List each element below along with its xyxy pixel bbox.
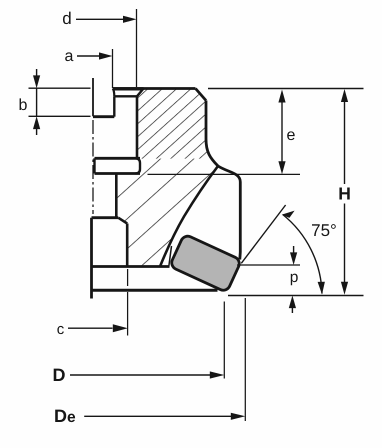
e extension line	[148, 173, 301, 175]
svg-text:a: a	[65, 48, 74, 65]
wire slot band right	[136, 158, 141, 173]
wire flange top	[93, 115, 114, 118]
wire slot right chamfer	[137, 89, 144, 97]
wire flange2 top	[92, 216, 119, 219]
wire seat bottom face	[92, 265, 170, 268]
svg-text:D: D	[53, 365, 66, 385]
dimension d	[76, 9, 137, 87]
hatched body section	[137, 89, 212, 159]
insert (carbide tip)	[169, 234, 241, 293]
svg-text:d: d	[62, 9, 71, 28]
wire neck curve	[206, 139, 240, 182]
wire slot left chamfer	[113, 89, 115, 97]
svg-text:p: p	[290, 269, 299, 286]
svg-text:De: De	[54, 406, 76, 426]
wire right edge upper	[205, 101, 208, 140]
wire right edge lower	[238, 182, 241, 260]
wire flange2 chamfer	[118, 218, 127, 224]
bottom thin reference line	[228, 295, 364, 297]
dimension a	[77, 49, 113, 88]
wire pocket corner line	[169, 246, 172, 267]
wire flange inner wall	[113, 96, 115, 116]
svg-text:75°: 75°	[311, 221, 337, 240]
wire slot band bottom	[95, 172, 141, 175]
wire flange2 right	[126, 224, 129, 267]
svg-text:b: b	[19, 97, 28, 114]
wire pocket back line	[160, 166, 218, 267]
wire slot band top	[95, 157, 141, 160]
wire bottom rim	[92, 289, 218, 292]
wire top right chamfer	[196, 89, 207, 101]
node top face	[113, 87, 196, 90]
wire slot floor	[114, 95, 137, 97]
75 degree line	[241, 205, 285, 263]
wire bore wall lower	[115, 174, 118, 218]
top reference line	[208, 88, 364, 90]
wire left edge top	[92, 78, 94, 116]
wire flange2 left	[90, 218, 93, 299]
svg-text:H: H	[338, 184, 351, 204]
wire slot band left	[93, 158, 95, 173]
centerline	[92, 120, 94, 214]
dimension b	[29, 69, 91, 135]
wire slot top emphasis	[113, 87, 144, 90]
dimension De	[84, 298, 245, 421]
svg-text:c: c	[57, 321, 65, 338]
dimension e	[278, 90, 285, 175]
dimension c	[68, 269, 128, 336]
wire counterbore wall	[136, 96, 139, 158]
dimension D	[70, 302, 224, 379]
dimension H	[341, 89, 348, 295]
svg-text:e: e	[287, 127, 296, 144]
dimension p	[237, 246, 300, 313]
75 degree arc	[283, 215, 322, 294]
